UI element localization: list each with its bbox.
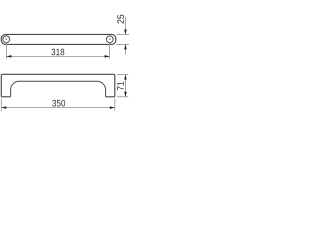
screw boss right circle — [106, 36, 113, 43]
dim 318 arrow right — [105, 55, 110, 58]
dim 25 arrow down — [124, 29, 127, 34]
dim 318 line — [6, 55, 109, 57]
dim 71 arrow up — [124, 75, 127, 80]
dim 71 label — [117, 82, 123, 91]
front view outer contour — [1, 74, 115, 97]
dim 318 extension line right — [109, 42, 111, 59]
front view inner contour — [11, 81, 106, 97]
dim 25 extension line top — [117, 33, 129, 35]
dim 71 extension line top — [117, 74, 128, 76]
front view right foot base — [106, 96, 115, 98]
dim 350 arrow left — [1, 106, 6, 109]
screw boss left circle — [3, 36, 10, 43]
dim 350 label — [52, 100, 65, 107]
dim 25 line lower segment — [124, 44, 126, 54]
dim 350 extension line right — [114, 99, 116, 111]
dim 350 arrow right — [110, 106, 115, 109]
dim 318 arrow left — [6, 55, 11, 58]
dim 71 arrow down — [124, 92, 127, 97]
screw center dot right — [109, 38, 110, 39]
dim 71 extension line bottom — [117, 96, 128, 98]
dim 350 line — [1, 107, 115, 109]
dim 71 line — [124, 75, 126, 97]
dim 25 label — [117, 15, 124, 24]
dim 318 extension line left — [5, 42, 7, 59]
dim 25 extension line bottom — [117, 43, 129, 45]
dim 350 extension line left — [0, 99, 2, 112]
dim 318 label — [51, 49, 64, 56]
dim 25 arrow up — [124, 44, 127, 49]
screw center dot left — [6, 38, 7, 39]
dim 25 line upper segment — [124, 17, 126, 35]
top view handle bar — [1, 34, 116, 44]
front view left foot base — [1, 96, 10, 98]
